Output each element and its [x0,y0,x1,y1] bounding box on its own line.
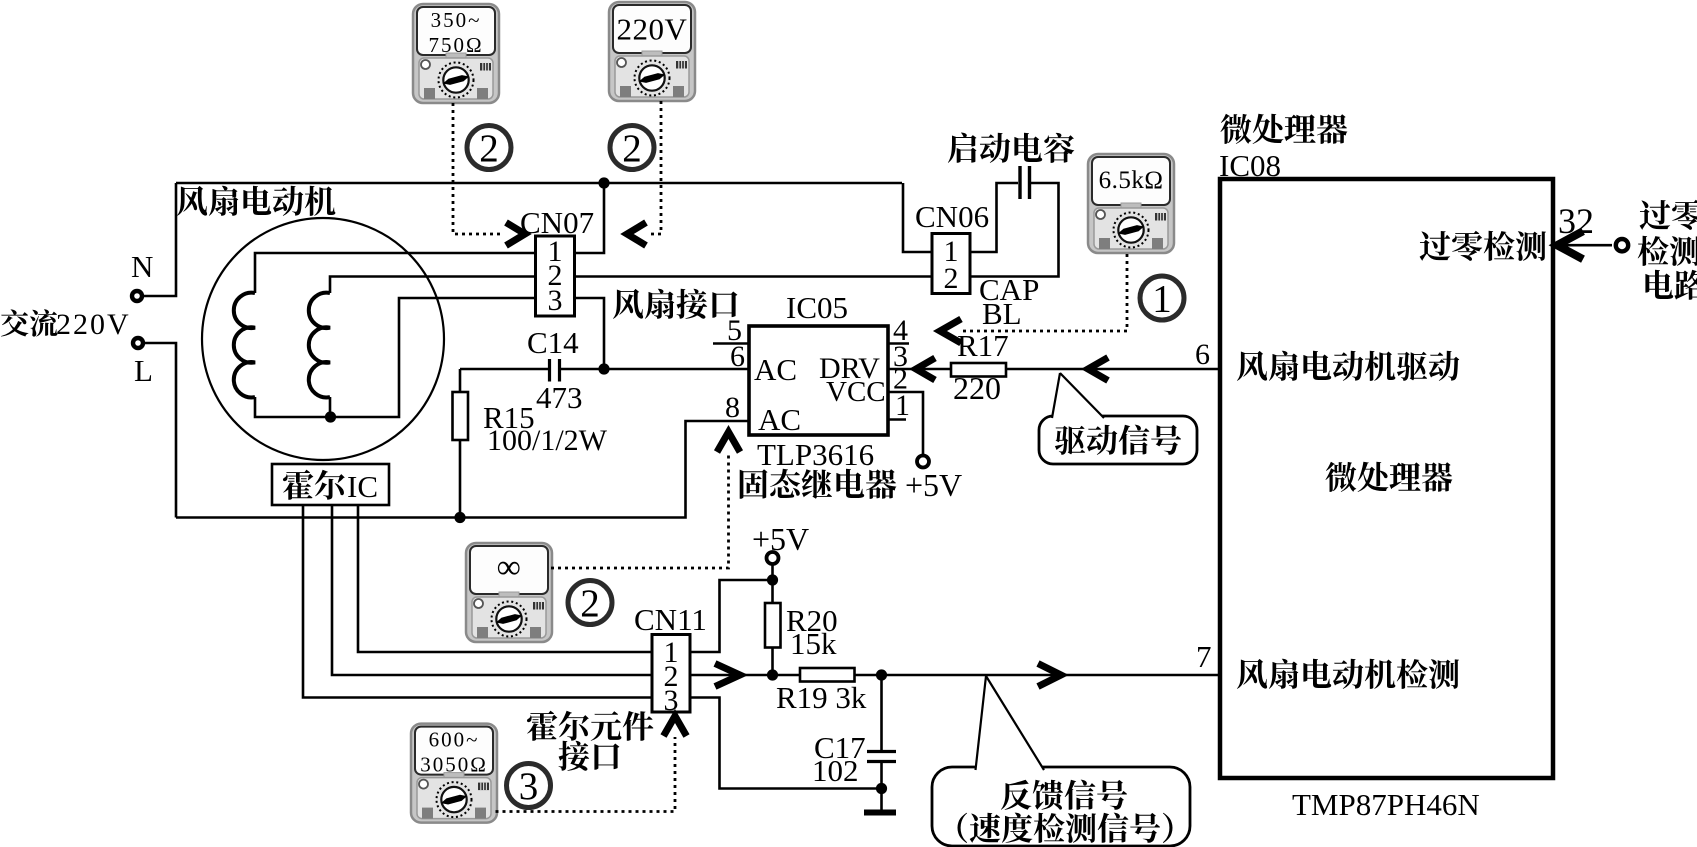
label: 驱动信号 [1055,426,1085,455]
arrow: M2 probe at CN07 [627,223,646,246]
wire: main winding top to CN07 pin1 [255,253,534,293]
terminal: zero-cross circuit [1616,239,1628,251]
arrow: M1 probe at CN07 [506,223,525,246]
node: +5V junction [767,574,778,585]
wire: IC05 pin3 to R17 [888,368,951,371]
capacitor CAP (start) plates [1018,166,1021,199]
microprocessor IC08 body [1220,179,1553,778]
label: 电路 (right) [1645,270,1673,299]
svg-text:2: 2 [944,262,959,295]
label: 过零 (right) [1640,200,1671,230]
node: C17 / CN11 pin3 junction [876,783,887,794]
label: 固态继电器 [740,469,768,499]
wire: AC source L lead down to bottom rail [143,343,177,518]
svg-text:473: 473 [536,380,583,415]
label: 接口 [559,741,590,771]
svg-text:VCC: VCC [826,376,886,408]
wire: top rail drop to CN06 pin1 [903,183,932,252]
wire: R17 to IC08 pin6 [1006,368,1220,371]
wire: aux winding top to CN07 pin2 [330,277,534,294]
node: R15 on bottom rail [454,512,465,523]
wire: R15 top lead [459,369,462,392]
label: 微处理器 (IC08 top) [1221,114,1252,144]
svg-text:220: 220 [953,370,1001,406]
arrow: M4 probe at IC05 pin8 [717,432,740,452]
callout: 反馈信号 tail [975,676,1045,771]
wire: +5V to R20 [771,564,774,603]
svg-text:220V: 220V [617,12,688,47]
probe path: M3 to BL line [962,254,1127,331]
connector CN11 body [652,635,690,713]
wire: top rail (N phase) from left frame to CN06 drop [176,182,902,185]
label: 过零检测 (inside IC08) [1420,231,1451,261]
resistor R15 body [453,392,469,440]
step number 3 (M5) [507,764,551,808]
motor aux winding L2 [309,293,330,398]
label: 风扇电动机检测 [1237,659,1267,689]
IC08 pin 32 wire [1553,244,1612,247]
terminal: L [133,338,143,348]
svg-text:6.5kΩ: 6.5kΩ [1099,167,1164,194]
label: 微处理器 (center) [1326,462,1357,492]
Hall IC box [272,464,389,505]
step number 2 (M4) [568,581,612,625]
connector CN07 body [536,236,575,316]
label: 霍尔元件 [527,711,557,741]
svg-text:350~: 350~ [431,8,482,32]
svg-text:R17: R17 [957,328,1009,363]
callout: 驱动信号 tail [1052,373,1104,419]
motor main winding L1 [234,293,255,398]
arrow: feedback signal direction [1038,664,1061,687]
wire: R19 to IC08 pin7 [855,674,1221,677]
wire: IC05 pin2 VCC to +5V [888,392,923,455]
svg-text:1: 1 [895,389,910,422]
wire: C14 left lead [460,368,548,371]
label: 启动电容 [948,133,977,163]
wire: CN06 pin1 to start capacitor [970,183,1018,252]
label: 风扇接口 [613,289,643,319]
IC05 pin 5 stub [713,342,749,345]
svg-text:C14: C14 [527,325,579,360]
svg-text:3: 3 [519,765,539,808]
wire: CN07 pin1 to top rail [575,183,605,253]
node: winding common junction [325,411,336,422]
multimeter M1 reading 350~750Ω [413,4,499,103]
multimeter M5 reading 600~3050Ω [411,724,497,823]
wire: C17 top lead [880,675,883,750]
wire: R20 bottom to detect line [771,648,774,676]
wire: CN11 pin3 loop to C17 bottom [690,698,882,789]
svg-text:6: 6 [730,340,745,373]
IC05 pin 1 stub [888,418,906,421]
callout: 反馈信号 bubble [932,767,1190,846]
wire: C14 right lead to node [561,368,604,371]
IC05 pin 4 stub [888,342,909,345]
wire: AC source N lead [143,183,177,296]
label: 反馈信号 [1001,780,1032,810]
label: 交流220V [1,309,29,336]
svg-text:AC: AC [758,402,801,437]
wire: CN11 pin2 to R19 [690,674,800,677]
wire: C17 bottom lead [880,763,883,811]
resistor R19 body [800,668,855,682]
fan motor outline [202,218,444,460]
svg-text:CN06: CN06 [915,199,989,234]
node: junction top rail / CN07 pin1 riser [598,177,609,188]
svg-text:IC05: IC05 [786,290,848,325]
svg-text:TLP3616: TLP3616 [757,437,874,472]
svg-text:2: 2 [622,127,642,170]
arrow: drive signal direction [1088,358,1108,381]
svg-text:N: N [131,249,153,284]
svg-text:102: 102 [812,753,859,788]
probe path: M1 to CN07 [453,103,503,234]
multimeter M4 reading ∞ [466,543,552,642]
svg-text:3: 3 [548,284,563,317]
svg-text:CN11: CN11 [634,602,707,637]
multimeter M3 reading 6.5kΩ [1088,154,1174,253]
arrow: M5 probe at CN11 [664,716,687,736]
node: C17 top junction [876,669,887,680]
callout: 驱动信号 bubble [1039,416,1197,464]
node: C14 / CN07 pin3 / IC05 pin6 [598,363,609,374]
probe path: M2 to CN07 [650,101,661,234]
wire: CN11 pin1 to +5V node [690,580,773,652]
svg-text:15k: 15k [790,626,837,661]
svg-text:8: 8 [725,391,740,424]
svg-text:+5V: +5V [752,521,809,557]
IC IC05 body [749,326,888,435]
step number 2 (M2) [610,126,654,170]
arrow: drive into IC05 pin3 [916,358,935,380]
svg-text:1: 1 [1152,278,1172,321]
wire: CN07 pin2 to CN06 pin2 [575,275,933,278]
resistor R17 body [951,363,1006,377]
svg-text:100/1/2W: 100/1/2W [487,424,608,457]
wire: Hall pin a to CN11 pin1 [358,505,652,652]
svg-text:R19 3k: R19 3k [776,680,867,715]
svg-text:7: 7 [1196,639,1212,674]
svg-text:IC: IC [347,469,378,504]
terminal: +5V (IC05 VCC) [917,456,929,468]
label: 检测 (right) [1638,236,1669,266]
svg-text:+5V: +5V [905,467,962,503]
svg-text:∞: ∞ [497,549,522,586]
arrow: zero-cross into IC08 [1557,231,1583,259]
svg-text:2: 2 [580,582,600,625]
svg-text:L: L [134,353,153,388]
terminal: +5V (hall supply) [767,552,779,564]
label: 霍尔IC [283,470,313,500]
ground bar [864,810,896,816]
svg-text:600~: 600~ [429,728,480,752]
wire: node to IC05 pin6 [604,368,749,371]
label: 风扇电动机驱动 [1237,351,1267,381]
arrow: feedback out of CN11 [715,664,740,687]
wire: bottom rail to IC05 pin8 [176,421,749,518]
wire: start capacitor to CN06 pin2 [970,183,1059,277]
svg-text:32: 32 [1558,201,1594,241]
wire: Hall pin c to CN11 pin3 [303,505,652,698]
capacitor C17 plates [867,750,896,753]
svg-text:6: 6 [1195,338,1210,371]
multimeter M2 reading 220V [609,2,695,101]
wire: CN07 pin3 to C14 node [575,298,605,369]
svg-text:BL: BL [982,296,1022,331]
capacitor C14 plates [548,359,551,382]
step number 1 [1140,276,1184,320]
terminal: N [132,291,142,301]
svg-text:TMP87PH46N: TMP87PH46N [1292,787,1480,822]
svg-text:220V: 220V [56,308,131,341]
probe path: M5 to CN11 pin3 [496,737,676,812]
probe path: M4 to IC05 pin8 [551,453,729,568]
wire: windings common bottom to CN07 pin3 [255,298,534,417]
svg-text:AC: AC [754,352,797,387]
resistor R20 body [765,603,781,648]
label: （速度检测信号） [958,813,968,843]
wire: Hall pin b to CN11 pin2 [332,505,652,675]
node: R20/R19 junction [767,669,778,680]
step number 2 (M1) [467,126,511,170]
label: motor 风扇电动机 [177,186,207,216]
wire: R15 bottom lead [459,440,462,518]
arrow: probe point at CN06 BL [940,319,961,343]
connector CN06 body [932,234,970,294]
svg-text:2: 2 [479,127,499,170]
